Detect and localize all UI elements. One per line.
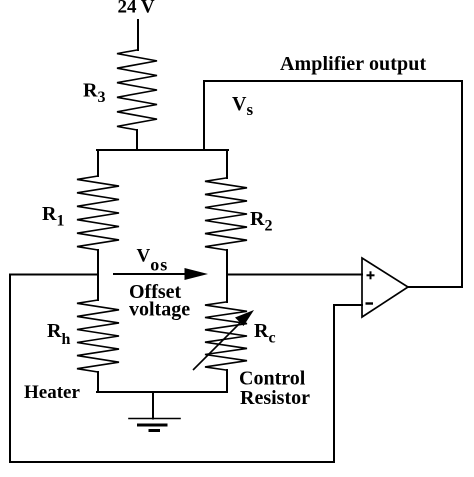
svg-text:R3: R3 [83,80,105,107]
svg-text:Rh: Rh [47,320,70,348]
svg-text:Amplifier output: Amplifier output [280,53,426,75]
svg-text:24 V: 24 V [118,0,155,18]
wire bridge left lower [97,372,99,392]
wire R3 to bridge top rail [136,130,138,150]
svg-text:Resistor: Resistor [240,387,310,409]
op-amp U1 [362,258,408,317]
svg-text:Heater: Heater [24,382,80,403]
wire 24V supply down to R3 [137,20,139,50]
wire bridge right middle segment [226,250,228,302]
wire left mid node to feedback loop [10,274,98,276]
ground [129,392,180,431]
wire bridge top rail [97,149,228,151]
Rc variable resistor arrow [193,310,254,370]
wire right mid node to noninverting input [227,274,362,276]
wire amplifier output right side down [461,81,463,287]
svg-text:voltage: voltage [129,299,190,321]
wire bridge left middle segment [97,250,99,300]
wire inverting input [334,304,362,306]
svg-text:Vos: Vos [137,246,169,275]
wire feedback left side down [9,275,11,463]
svg-text:R2: R2 [250,208,272,235]
wire bridge left upper [97,150,99,176]
wire feedback bottom run [10,461,334,463]
Vos offset voltage arrow [113,268,208,280]
wire bridge bottom rail [97,391,227,393]
wire bridge right lower [226,370,228,392]
wire amplifier output top run [204,80,462,82]
op-amp inverting - sign [366,302,374,304]
wire Vs tap up from top rail [203,81,205,150]
svg-text:Rc: Rc [254,320,276,347]
resistor R3 [117,50,157,130]
resistor R2 [205,178,247,250]
svg-text:R1: R1 [42,203,64,230]
wire op-amp output [408,286,462,288]
resistor Rh [77,300,119,372]
resistor R1 [77,176,119,250]
op-amp noninverting + sign [367,271,375,279]
wire bridge right upper [226,150,228,178]
svg-text:Vs: Vs [232,93,253,119]
resistor Rc [205,302,247,370]
wire feedback up to inverting input [333,305,335,462]
